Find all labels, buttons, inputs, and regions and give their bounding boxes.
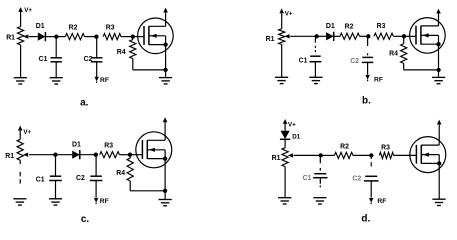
svg-text:R1: R1	[5, 153, 14, 160]
svg-text:R4: R4	[389, 50, 398, 57]
svg-text:V+: V+	[288, 121, 296, 128]
wire R4 to source (b)	[403, 63, 405, 70]
svg-text:R1: R1	[6, 35, 15, 42]
resistor R2 (d)	[321, 154, 335, 156]
lead C1 to ground (c)	[55, 181, 57, 199]
svg-text:C1: C1	[299, 57, 308, 64]
wire R4 to source (c)	[129, 181, 131, 191]
diode D1 (b)	[326, 32, 334, 40]
dashed lead to C2 (b)	[367, 36, 369, 46]
lead C2 to RF (a)	[96, 62, 98, 77]
svg-text:R1: R1	[266, 36, 275, 43]
svg-text:R2: R2	[69, 24, 78, 31]
svg-text:R4: R4	[117, 49, 126, 56]
svg-text:C2: C2	[76, 175, 85, 182]
svg-text:C2: C2	[352, 176, 361, 183]
svg-text:d.: d.	[361, 214, 370, 225]
capacitor C2 (c)	[90, 175, 101, 177]
resistor R3 (d)	[379, 152, 393, 158]
RF terminal arrow (a)	[94, 77, 99, 82]
source junction dot (a)	[163, 68, 167, 72]
gate node (c)	[128, 153, 132, 157]
capacitor C1 (c)	[50, 175, 61, 177]
ground under C1 (a)	[50, 77, 63, 79]
svg-text:R2: R2	[340, 144, 349, 151]
ground under C1 (b)	[309, 76, 322, 78]
resistor R4 (a)	[132, 37, 134, 40]
circuit d: supply V+ terminal	[284, 124, 286, 131]
lead C2 to RF (c)	[95, 181, 97, 198]
circuit a: supply V+ terminal	[20, 11, 22, 26]
dashed lead R1 to ground (c)	[19, 160, 21, 164]
lead C2 to RF (d)	[370, 181, 372, 198]
capacitor C1 (a)	[51, 57, 62, 59]
svg-text:R2: R2	[345, 24, 354, 31]
dashed lead to C1 (d)	[319, 155, 321, 163]
capacitor C1 (b)	[310, 55, 321, 57]
potentiometer R1 (d)	[282, 148, 288, 167]
gate wire into MOSFET (c)	[130, 154, 143, 156]
resistor R2 (b)	[334, 35, 340, 37]
svg-text:R1: R1	[272, 155, 281, 162]
junction node C1 (c)	[53, 153, 57, 157]
gate node (a)	[131, 34, 135, 38]
dashed lead to C2 (d)	[370, 155, 372, 159]
svg-text:R3: R3	[104, 143, 113, 150]
svg-text:R3: R3	[377, 23, 386, 30]
svg-text:a.: a.	[80, 98, 89, 109]
ground under R1 (b)	[275, 76, 288, 78]
svg-text:b.: b.	[362, 96, 371, 107]
junction node C2 (c)	[94, 153, 98, 157]
wire D1 to node (a)	[45, 36, 56, 38]
lead C2 to RF (b)	[367, 63, 369, 75]
dashed lead C1 to ground (d)	[319, 178, 321, 183]
svg-text:C1: C1	[39, 56, 48, 63]
svg-text:D1: D1	[72, 142, 81, 149]
circuit b: supply V+ terminal	[281, 13, 283, 28]
diode D1 (d)	[281, 131, 290, 139]
ground under C1 (d)	[313, 197, 326, 199]
junction node C1 (d)	[319, 153, 323, 157]
svg-text:R3: R3	[381, 145, 390, 152]
resistor R3 (b)	[374, 33, 393, 39]
wire node to diode (c)	[55, 154, 72, 156]
gate node (b)	[402, 34, 406, 38]
svg-text:RF: RF	[374, 77, 383, 84]
junction node C1 (b)	[315, 34, 319, 38]
lead to C2 (a)	[96, 37, 98, 58]
svg-text:D1: D1	[292, 133, 300, 140]
svg-text:c.: c.	[81, 214, 90, 225]
circuit c: supply V+ terminal	[19, 131, 21, 140]
RF terminal arrow (d)	[369, 198, 374, 203]
potentiometer R1 (b)	[279, 29, 285, 45]
svg-text:V+: V+	[24, 7, 32, 14]
resistor R2 (a)	[56, 36, 65, 38]
junction node C2 (a)	[94, 34, 98, 38]
capacitor C2 (b)	[362, 56, 373, 58]
svg-text:D1: D1	[36, 23, 45, 30]
capacitor C1 (d)	[314, 173, 326, 175]
svg-text:C1: C1	[36, 176, 45, 183]
svg-text:C2: C2	[350, 58, 359, 65]
diode D1 (c)	[72, 151, 80, 159]
ground under R1 (c)	[13, 198, 26, 200]
dashed lead to C1 (b)	[314, 36, 316, 42]
svg-text:V+: V+	[285, 10, 293, 17]
svg-text:D1: D1	[326, 23, 335, 30]
ground under R1 (d)	[278, 197, 291, 199]
capacitor C2 (a)	[91, 57, 102, 59]
gate wire into MOSFET (a)	[133, 36, 145, 38]
ground under R1 (a)	[14, 77, 27, 79]
lead C1 to ground (a)	[55, 62, 57, 77]
resistor R4 (b)	[403, 36, 405, 43]
lead to C1 (c)	[55, 155, 57, 176]
RF terminal arrow (c)	[94, 198, 99, 203]
gate wire into MOSFET (b)	[404, 35, 416, 37]
potentiometer R1 (a)	[18, 27, 24, 46]
MOSFET Q1 (a)	[138, 18, 174, 54]
junction node C2 (d)	[369, 153, 373, 157]
ground under C1 (c)	[49, 198, 62, 200]
ground under source (c)	[159, 199, 172, 201]
svg-text:C2: C2	[84, 56, 93, 63]
ground under source (b)	[432, 76, 445, 78]
svg-text:R3: R3	[106, 24, 115, 31]
lead D1 to R1 (d)	[284, 139, 286, 147]
svg-text:RF: RF	[100, 198, 109, 205]
gate wire into MOSFET (d)	[394, 154, 417, 156]
resistor R3 (c)	[100, 152, 120, 158]
resistor R3 (a)	[103, 34, 121, 40]
wire node to diode (b)	[317, 35, 326, 37]
wire D1 to node (c)	[80, 154, 96, 156]
lead to C2 (c)	[95, 155, 97, 176]
source junction dot (b)	[436, 68, 440, 72]
ground under source (d)	[432, 198, 445, 200]
resistor R4 (c)	[129, 155, 131, 158]
svg-text:C1: C1	[303, 175, 312, 182]
MOSFET Q1 (c)	[136, 132, 172, 168]
lead C1 to ground (b)	[314, 62, 316, 77]
RF terminal arrow (b)	[365, 75, 370, 80]
wire wiper to node (b)	[290, 35, 317, 37]
capacitor C2 (d)	[365, 175, 377, 177]
wire wiper to diode (a)	[29, 36, 38, 38]
source junction dot (c)	[163, 189, 167, 193]
ground under source (a)	[159, 77, 172, 79]
MOSFET Q1 (d)	[410, 137, 446, 173]
wire wiper to node (c)	[29, 154, 55, 156]
svg-text:RF: RF	[377, 198, 386, 205]
wire R4 to source (a)	[132, 59, 134, 70]
svg-text:V+: V+	[23, 129, 31, 136]
svg-text:RF: RF	[100, 77, 109, 84]
svg-text:R4: R4	[116, 170, 125, 177]
lead to C1 (a)	[55, 37, 57, 58]
MOSFET Q1 (b)	[410, 18, 446, 54]
junction node C2 (b)	[366, 34, 370, 38]
junction node C1 (a)	[54, 34, 58, 38]
wire wiper to node (d)	[294, 154, 321, 156]
diode D1 (a)	[38, 33, 46, 41]
potentiometer R1 (c)	[17, 139, 23, 160]
